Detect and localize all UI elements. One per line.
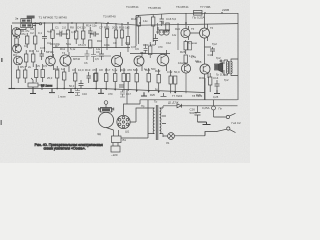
ground left mid	[49, 89, 55, 93]
resistor R32	[147, 74, 150, 82]
more labels	[21, 26, 229, 136]
wire R16	[56, 66, 58, 89]
resistor R6	[17, 70, 20, 78]
wire bottom bus right	[100, 89, 205, 93]
resistor R22	[120, 30, 123, 38]
transistor T8b	[200, 64, 210, 78]
capacitor C16 to ground	[75, 89, 80, 96]
node bus dots	[34, 12, 223, 24]
socket Ш1	[117, 115, 130, 128]
resistor R20	[105, 29, 108, 37]
resistor R3	[34, 36, 37, 44]
wire right rail	[237, 13, 239, 100]
capacitor C17 to ground	[120, 90, 125, 97]
resistor R1	[15, 38, 18, 46]
wire C4	[56, 33, 68, 35]
wire vertical x101	[101, 23, 103, 50]
input connector box Гн1	[21, 16, 35, 28]
ground C26	[198, 122, 211, 125]
resistor R40	[126, 37, 129, 45]
fuse Пр1	[194, 11, 203, 16]
mains plug Сеть	[205, 113, 236, 135]
resistor R36	[184, 42, 187, 50]
capacitor C12	[210, 47, 215, 56]
wire R31	[136, 68, 138, 92]
wire R13 R14	[76, 23, 83, 44]
wire stage1	[44, 23, 46, 52]
resistor R35	[174, 76, 177, 84]
wire R18	[74, 68, 76, 89]
capacitor C26	[195, 106, 201, 122]
wire input to T1	[17, 24, 40, 30]
capacitor C13	[215, 80, 220, 90]
wire R6 R7	[18, 66, 25, 83]
capacitor C3	[40, 50, 45, 60]
resistor R5	[32, 54, 35, 62]
wire left rail	[11, 25, 13, 89]
capacitor C5	[88, 27, 93, 38]
capacitor C11	[153, 34, 158, 45]
capacitor C9	[99, 50, 104, 60]
resistor R37b	[188, 42, 191, 50]
ground pot	[30, 87, 36, 94]
resistor R26	[122, 74, 125, 82]
wire R19	[95, 68, 97, 89]
switch B1	[106, 128, 121, 143]
resistor R33	[157, 75, 160, 83]
wire R38	[209, 73, 211, 92]
volume control dual pot	[158, 27, 170, 35]
resistor R16	[56, 70, 59, 78]
wire vertical x158	[157, 23, 159, 34]
wire R33	[158, 69, 160, 93]
ground mid	[98, 89, 104, 93]
output transformer Тр2	[224, 59, 238, 76]
ground right	[214, 90, 220, 94]
wire vertical x178	[177, 23, 179, 50]
capacitor C18	[85, 50, 90, 60]
transistor T7	[157, 50, 169, 71]
wire stage2 coupling	[52, 23, 54, 30]
resistor R23	[94, 74, 97, 82]
lamp L1	[163, 132, 205, 140]
node bottom bus dots	[56, 88, 176, 94]
diode D1	[163, 104, 238, 108]
capacitor C2	[42, 33, 47, 42]
extra labels row	[30, 27, 101, 51]
left margin speck	[1, 58, 3, 62]
fuse Пр2	[212, 100, 216, 117]
wire link T4 area	[71, 55, 111, 58]
wire socket up	[124, 90, 141, 116]
potentiometer R10	[28, 78, 42, 90]
labels right gap	[144, 55, 200, 71]
capacitor C10	[119, 85, 124, 87]
resistor R9	[41, 70, 44, 78]
wire R36	[185, 40, 187, 54]
resistor R37	[184, 55, 187, 63]
resistor R13	[75, 31, 78, 39]
transistor T6	[134, 52, 144, 71]
resistor R15	[89, 40, 92, 48]
resistor R14	[82, 31, 85, 39]
ground C7	[68, 89, 74, 93]
capacitor C15	[91, 48, 96, 62]
resistor R28	[137, 17, 140, 26]
resistor R30	[166, 23, 169, 31]
wire R25	[114, 68, 116, 91]
wire R4 R5	[26, 50, 33, 67]
ground mid2	[141, 92, 147, 96]
wire R1	[16, 36, 18, 48]
wire vertical x163	[135, 16, 137, 47]
resistor R24	[105, 74, 108, 82]
transistor T2a	[13, 44, 22, 53]
wire mid feedback2	[130, 53, 170, 55]
scan noise overlay	[0, 0, 250, 163]
wire bottom bus left	[12, 88, 100, 90]
transistor T1	[12, 28, 21, 38]
wire R20	[106, 23, 108, 50]
transistor T9	[181, 26, 190, 40]
capacitor C8	[90, 32, 99, 37]
wire R17	[63, 68, 65, 89]
wire T8a emitter down	[185, 73, 187, 93]
wire R26 R27	[124, 68, 128, 91]
left margin speck 2	[1, 120, 2, 125]
wire T9 T10 link	[186, 13, 200, 33]
resistor R34	[169, 76, 172, 84]
resistor R27	[127, 74, 130, 82]
wire R34 R35	[171, 70, 176, 93]
resistor R8	[35, 70, 38, 78]
transformer Tp1	[121, 100, 166, 140]
wire power section top	[140, 99, 238, 101]
wire out stage	[205, 13, 212, 100]
transistor T4	[60, 52, 71, 72]
capacitor C16e	[160, 14, 165, 26]
capacitor C6	[79, 80, 84, 89]
resistor R7	[24, 70, 27, 78]
resistor R11	[51, 30, 54, 38]
resistor R31	[135, 74, 138, 82]
wire R28 R29	[139, 15, 154, 44]
wire bottom drop x163	[161, 93, 167, 97]
wire R24	[105, 68, 107, 90]
resistor R17	[63, 72, 66, 80]
fuse bottom	[111, 143, 120, 153]
transistor T8a	[181, 64, 190, 73]
resistor R39	[149, 46, 152, 55]
wire right mid rail	[204, 78, 206, 100]
speaker Гр	[215, 60, 223, 72]
wire R8 R9	[36, 64, 43, 82]
labels gap fill	[47, 57, 99, 80]
resistor R19	[95, 73, 98, 81]
transistor T3	[46, 54, 56, 70]
wire mid feedback	[53, 47, 130, 49]
transistor T10	[200, 24, 210, 41]
wire socket right	[130, 108, 148, 122]
node input jack	[39, 23, 41, 25]
wire top main bus	[12, 23, 238, 25]
resistor R18	[74, 73, 77, 81]
resistor R4	[25, 54, 28, 62]
motor M1 body	[98, 101, 114, 128]
wire R39	[149, 42, 151, 58]
capacitor C20	[144, 44, 148, 54]
wire top-right supply line	[136, 13, 238, 15]
transistor T5	[111, 52, 122, 72]
wire R21 R22	[116, 23, 122, 48]
resistor R38	[209, 77, 212, 85]
ground left rail	[9, 88, 16, 90]
resistor R21	[114, 30, 117, 38]
resistor R2	[26, 36, 29, 44]
resistor R25	[114, 74, 117, 82]
capacitor C7 plate	[87, 72, 92, 83]
transistor T2b	[14, 56, 23, 65]
resistor R29	[152, 17, 155, 26]
wire R40	[127, 26, 129, 53]
wire R11 down	[52, 38, 54, 56]
wire R32	[148, 68, 150, 93]
wire R2	[26, 33, 28, 48]
resistor R12	[66, 30, 69, 38]
wire R12	[67, 23, 69, 52]
capacitor C4	[56, 32, 65, 37]
wire R3	[34, 23, 36, 50]
